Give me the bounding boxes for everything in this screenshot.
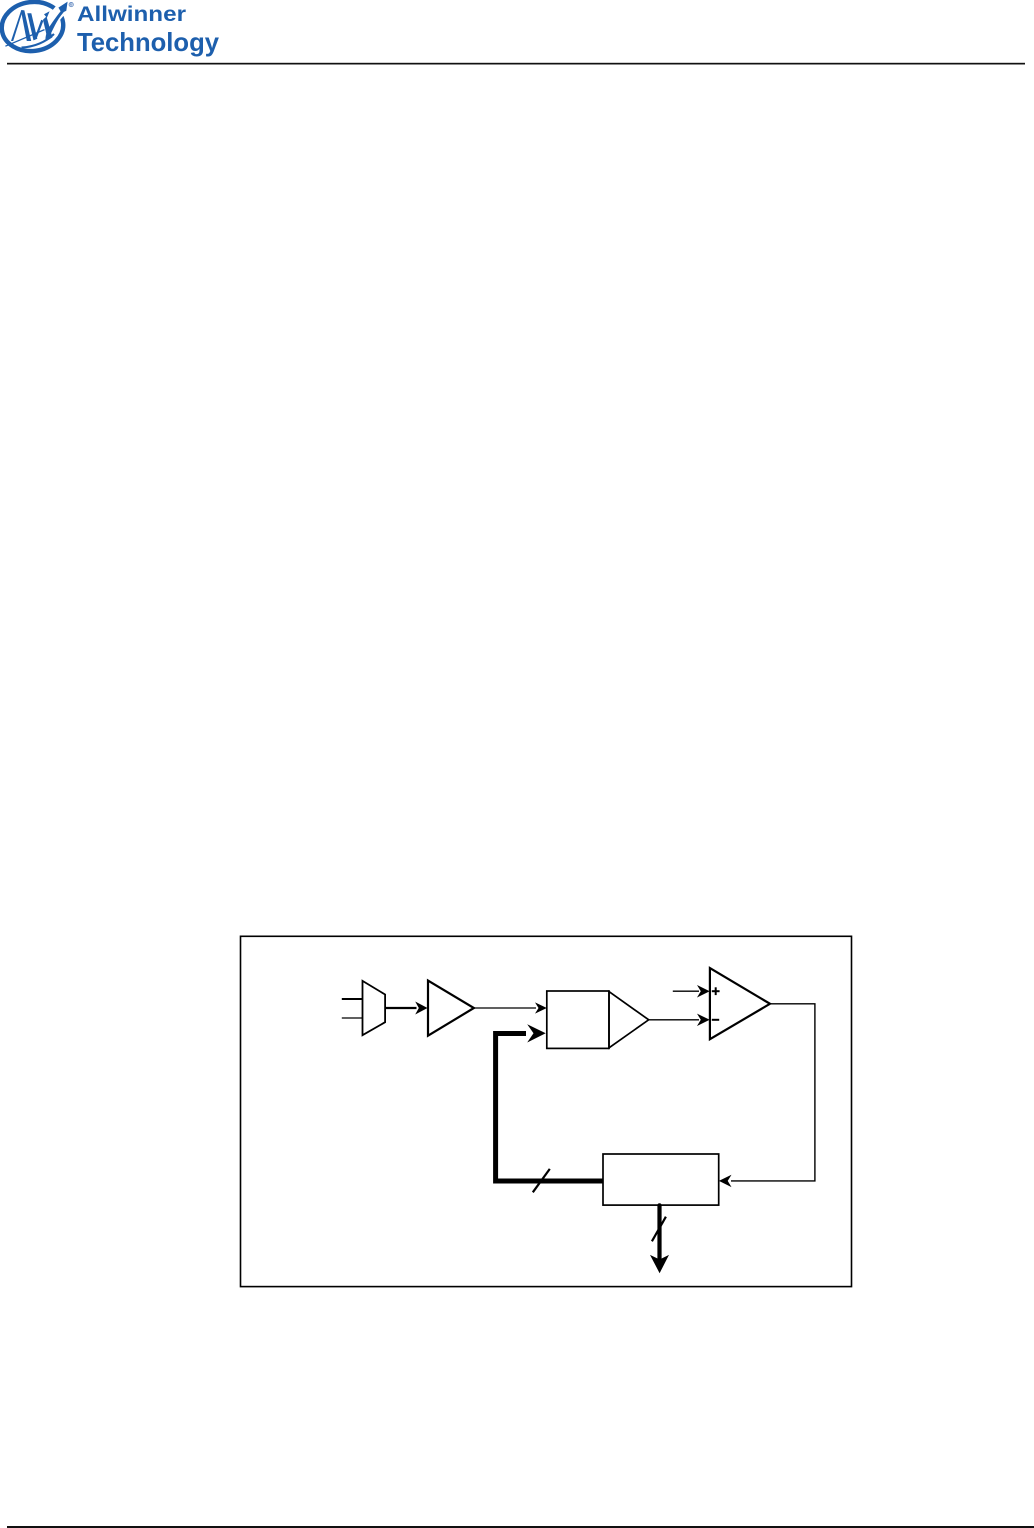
comparator U1	[710, 968, 770, 1039]
wire comparator output to SAR register	[731, 1004, 815, 1181]
arrowhead at DAC input	[535, 1002, 547, 1013]
header rule	[7, 63, 1025, 65]
svg-text:R: R	[70, 2, 73, 7]
arrowhead at SAR register right side	[719, 1175, 732, 1187]
mux input wire bottom	[342, 1017, 363, 1019]
logo thin diagonal line	[5, 30, 44, 47]
junction dot at SAR register bottom	[658, 1203, 662, 1207]
bus width slash on output bus	[652, 1217, 666, 1242]
mux input wire top	[342, 998, 363, 1000]
output bus from SAR register (thick, down)	[657, 1205, 661, 1262]
svg-text:Technology: Technology	[77, 27, 220, 57]
DAC box	[547, 991, 609, 1048]
logo letter W	[27, 11, 52, 40]
wire mux to buffer	[385, 1007, 416, 1009]
arrowhead at comparator plus input	[697, 985, 710, 998]
wire DAC to comparator minus	[649, 1019, 699, 1021]
diagram frame	[241, 936, 852, 1286]
comparator plus label	[712, 987, 720, 995]
feedback bus SAR to DAC (thick)	[496, 1034, 603, 1182]
logo swoosh arrow	[45, 2, 67, 40]
footer rule	[7, 1526, 1034, 1528]
wire buffer to DAC	[474, 1007, 536, 1009]
logo swoosh tail curve	[22, 34, 55, 48]
arrowhead at output bus end	[650, 1255, 669, 1273]
arrowhead at DAC feedback input (thick)	[527, 1024, 546, 1042]
logo emblem ellipse	[0, 0, 68, 55]
DAC triangle	[609, 992, 649, 1048]
bus width slash on feedback bus	[533, 1169, 550, 1192]
buffer amplifier	[428, 981, 474, 1036]
svg-text:Allwinner: Allwinner	[77, 2, 187, 26]
logo letter A	[11, 10, 31, 41]
comparator minus label	[712, 1019, 719, 1021]
arrowhead at buffer input	[415, 1002, 427, 1015]
mux MUX	[363, 981, 386, 1035]
arrowhead at comparator minus input	[697, 1014, 710, 1026]
logo registered trademark	[69, 2, 73, 7]
SAR register box	[603, 1154, 719, 1205]
comparator plus input wire	[673, 990, 699, 992]
